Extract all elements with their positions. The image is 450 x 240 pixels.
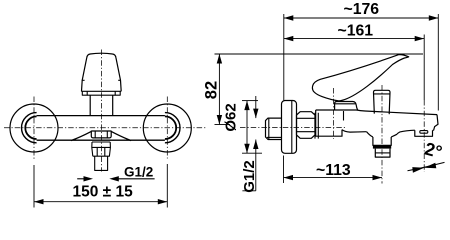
diverter knob top line	[374, 93, 391, 95]
right tube end inner cap	[165, 116, 176, 139]
centerline cartridge vertical	[333, 88, 335, 139]
82 dimension line	[218, 54, 220, 125]
inlet nub	[266, 118, 282, 139]
spout underside right	[433, 129, 434, 131]
82 top extension line	[215, 53, 424, 55]
centerline side axis horizontal	[240, 127, 345, 129]
knob side break right	[118, 79, 121, 81]
centerline right flange vertical	[166, 97, 168, 159]
ext line wall plane top	[283, 14, 285, 100]
150 dimension extension left	[33, 165, 35, 208]
right tube end outer cap	[165, 113, 180, 143]
shower boss cup left wing	[367, 132, 373, 137]
svg-text:Ø62: Ø62	[223, 103, 240, 131]
150 dimension line	[34, 201, 167, 203]
shower outlet cylinder	[373, 137, 391, 145]
body tube top line	[37, 115, 165, 117]
arm underside left	[342, 130, 367, 133]
washer	[315, 113, 318, 139]
hex nut front	[92, 142, 111, 156]
svg-text:~113: ~113	[316, 162, 351, 179]
2 degree arrow left	[412, 167, 424, 173]
G1/2 leader left arrow	[77, 178, 84, 180]
lever blade bottom line	[81, 90, 121, 92]
inlet nub bottom chamfer line	[267, 136, 282, 138]
cartridge neck	[90, 95, 113, 115]
cartridge collar	[335, 102, 358, 111]
shower outlet thread	[375, 149, 390, 158]
2 degree angle arc	[408, 162, 445, 170]
150 dim arrow right	[158, 199, 168, 204]
~161 dimension line	[284, 38, 424, 40]
Ø62 extension tick top	[242, 100, 258, 102]
G1/2 side dim line bottom	[242, 140, 255, 191]
centerline spout axis vertical	[100, 50, 102, 172]
cartridge collar inner line	[335, 103, 356, 105]
svg-text:82: 82	[203, 81, 221, 99]
aerator nub	[415, 130, 433, 136]
left tube end outer cap	[22, 113, 37, 143]
wall disc face line	[291, 101, 293, 153]
centerline horizontal front view	[4, 127, 206, 129]
shower boss cup right wing	[391, 134, 397, 137]
spout underside middle	[397, 130, 415, 134]
ext line aerator axis	[423, 35, 425, 101]
body arm root line	[343, 111, 345, 121]
diverter knob	[374, 90, 391, 114]
handle knob	[82, 53, 122, 91]
lever bottom tab left	[82, 91, 87, 95]
Ø62 dimension line	[246, 101, 248, 154]
lever bottom tab right	[115, 91, 120, 95]
spout boss cup inner lines	[95, 131, 107, 138]
shower outlet thread line	[375, 152, 390, 154]
svg-text:G1/2: G1/2	[241, 160, 258, 193]
shower outlet ring band	[373, 145, 391, 148]
spout boss flare left wing	[71, 131, 92, 140]
wall disc	[282, 101, 297, 154]
svg-text:150 ± 15: 150 ± 15	[73, 184, 134, 201]
svg-text:~161: ~161	[338, 23, 374, 40]
body tube bottom line	[37, 139, 165, 141]
~113 dimension line	[284, 177, 383, 179]
wall hex nut	[297, 112, 316, 139]
knob side break left	[82, 79, 85, 81]
ext line spout tip	[437, 14, 439, 111]
lever handle side	[312, 55, 408, 101]
~176 dimension line	[284, 17, 439, 19]
82 bottom extension tick	[215, 124, 231, 126]
centerline aerator vertical	[423, 100, 425, 172]
hex nut facets front	[97, 147, 105, 156]
left tube end inner cap	[25, 116, 36, 139]
neck top edge	[87, 94, 115, 96]
wall hex facet lines	[297, 118, 316, 131]
150 dimension extension right	[166, 164, 168, 208]
Ø62 extension tick bottom	[242, 152, 262, 154]
G1/2 leader right arrow	[119, 178, 155, 180]
centerline left flange vertical	[33, 97, 35, 161]
2 degree arrow right	[424, 163, 436, 169]
outlet thread pipe front	[95, 156, 108, 170]
spout boss flare right wing	[111, 131, 131, 140]
body block	[316, 110, 357, 136]
left wall flange circle	[10, 104, 58, 152]
svg-text:G1/2: G1/2	[124, 165, 153, 180]
aerator slot	[420, 131, 428, 134]
svg-text:~176: ~176	[344, 1, 380, 18]
spout end face	[434, 115, 438, 131]
spout arm top	[357, 110, 438, 115]
G1/2 side dim line top	[255, 96, 257, 118]
150 dim arrow left	[34, 199, 44, 204]
right wall flange circle	[143, 104, 191, 152]
spout boss cup front	[91, 131, 111, 138]
centerline shower outlet vertical	[381, 85, 383, 184]
inlet nub inner line	[268, 118, 270, 139]
~113 left extension	[283, 156, 285, 184]
